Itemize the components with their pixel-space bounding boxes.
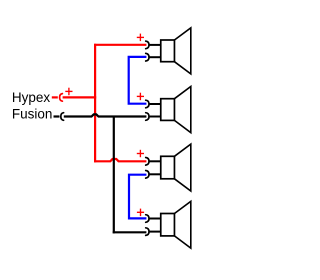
svg-text:Fusion: Fusion bbox=[12, 106, 53, 121]
speaker SPK3 - pin stub bbox=[149, 173, 160, 175]
speaker SPK3 cone bbox=[174, 144, 190, 191]
wire black from amp - to speaker 2 - (with hop over red) bbox=[64, 114, 147, 116]
amp positive connector arc bbox=[60, 94, 63, 102]
speaker SPK2 cone bbox=[174, 87, 190, 133]
speaker SPK1 - connector arc bbox=[146, 53, 149, 61]
speaker SPK2 + label bbox=[137, 93, 144, 101]
amp negative stub bbox=[54, 115, 60, 117]
wire red to speaker 3 + (with hop over black) bbox=[94, 159, 146, 161]
wire red vertical bus bbox=[94, 44, 96, 163]
amp negative connector arc bbox=[61, 113, 64, 121]
speaker SPK1 + pin stub bbox=[149, 44, 160, 46]
amp positive stub bbox=[52, 96, 58, 98]
wire blue speaker 1 - to speaker 2 + bbox=[129, 57, 147, 104]
speaker SPK4 - connector arc bbox=[146, 228, 149, 236]
speaker SPK1 + connector arc bbox=[146, 41, 149, 49]
speaker SPK4 + connector arc bbox=[146, 215, 149, 223]
wire black vertical bus bbox=[113, 117, 115, 234]
speaker SPK2 + connector arc bbox=[146, 100, 149, 108]
speaker SPK4 + label bbox=[137, 209, 144, 217]
speaker SPK2 - pin stub bbox=[149, 116, 160, 118]
wire red to speaker 1 + bbox=[94, 44, 146, 46]
speaker SPK3 + pin stub bbox=[149, 160, 160, 162]
speaker SPK3 body bbox=[161, 156, 175, 179]
speaker SPK4 - pin stub bbox=[149, 231, 160, 233]
wire blue speaker 3 - to speaker 4 + bbox=[129, 175, 146, 219]
speaker SPK3 + label bbox=[137, 150, 144, 157]
speaker SPK1 body bbox=[161, 40, 175, 62]
speaker SPK2 body bbox=[161, 99, 175, 121]
speaker SPK1 cone bbox=[174, 28, 190, 74]
wire red from amp + to junction bbox=[63, 96, 97, 98]
speaker SPK4 body bbox=[161, 214, 175, 236]
svg-text:Hypex: Hypex bbox=[12, 90, 51, 105]
speaker SPK4 + pin stub bbox=[149, 218, 160, 220]
speaker SPK2 - connector arc bbox=[146, 113, 149, 121]
speaker SPK4 cone bbox=[174, 201, 190, 248]
amp positive + label bbox=[65, 88, 72, 96]
speaker SPK2 + pin stub bbox=[149, 103, 160, 105]
speaker SPK1 - pin stub bbox=[149, 56, 160, 58]
speaker SPK3 + connector arc bbox=[146, 158, 149, 166]
wire black to speaker 4 - bbox=[113, 231, 147, 233]
speaker SPK3 - connector arc bbox=[146, 171, 149, 179]
speaker SPK1 + label bbox=[137, 34, 144, 42]
